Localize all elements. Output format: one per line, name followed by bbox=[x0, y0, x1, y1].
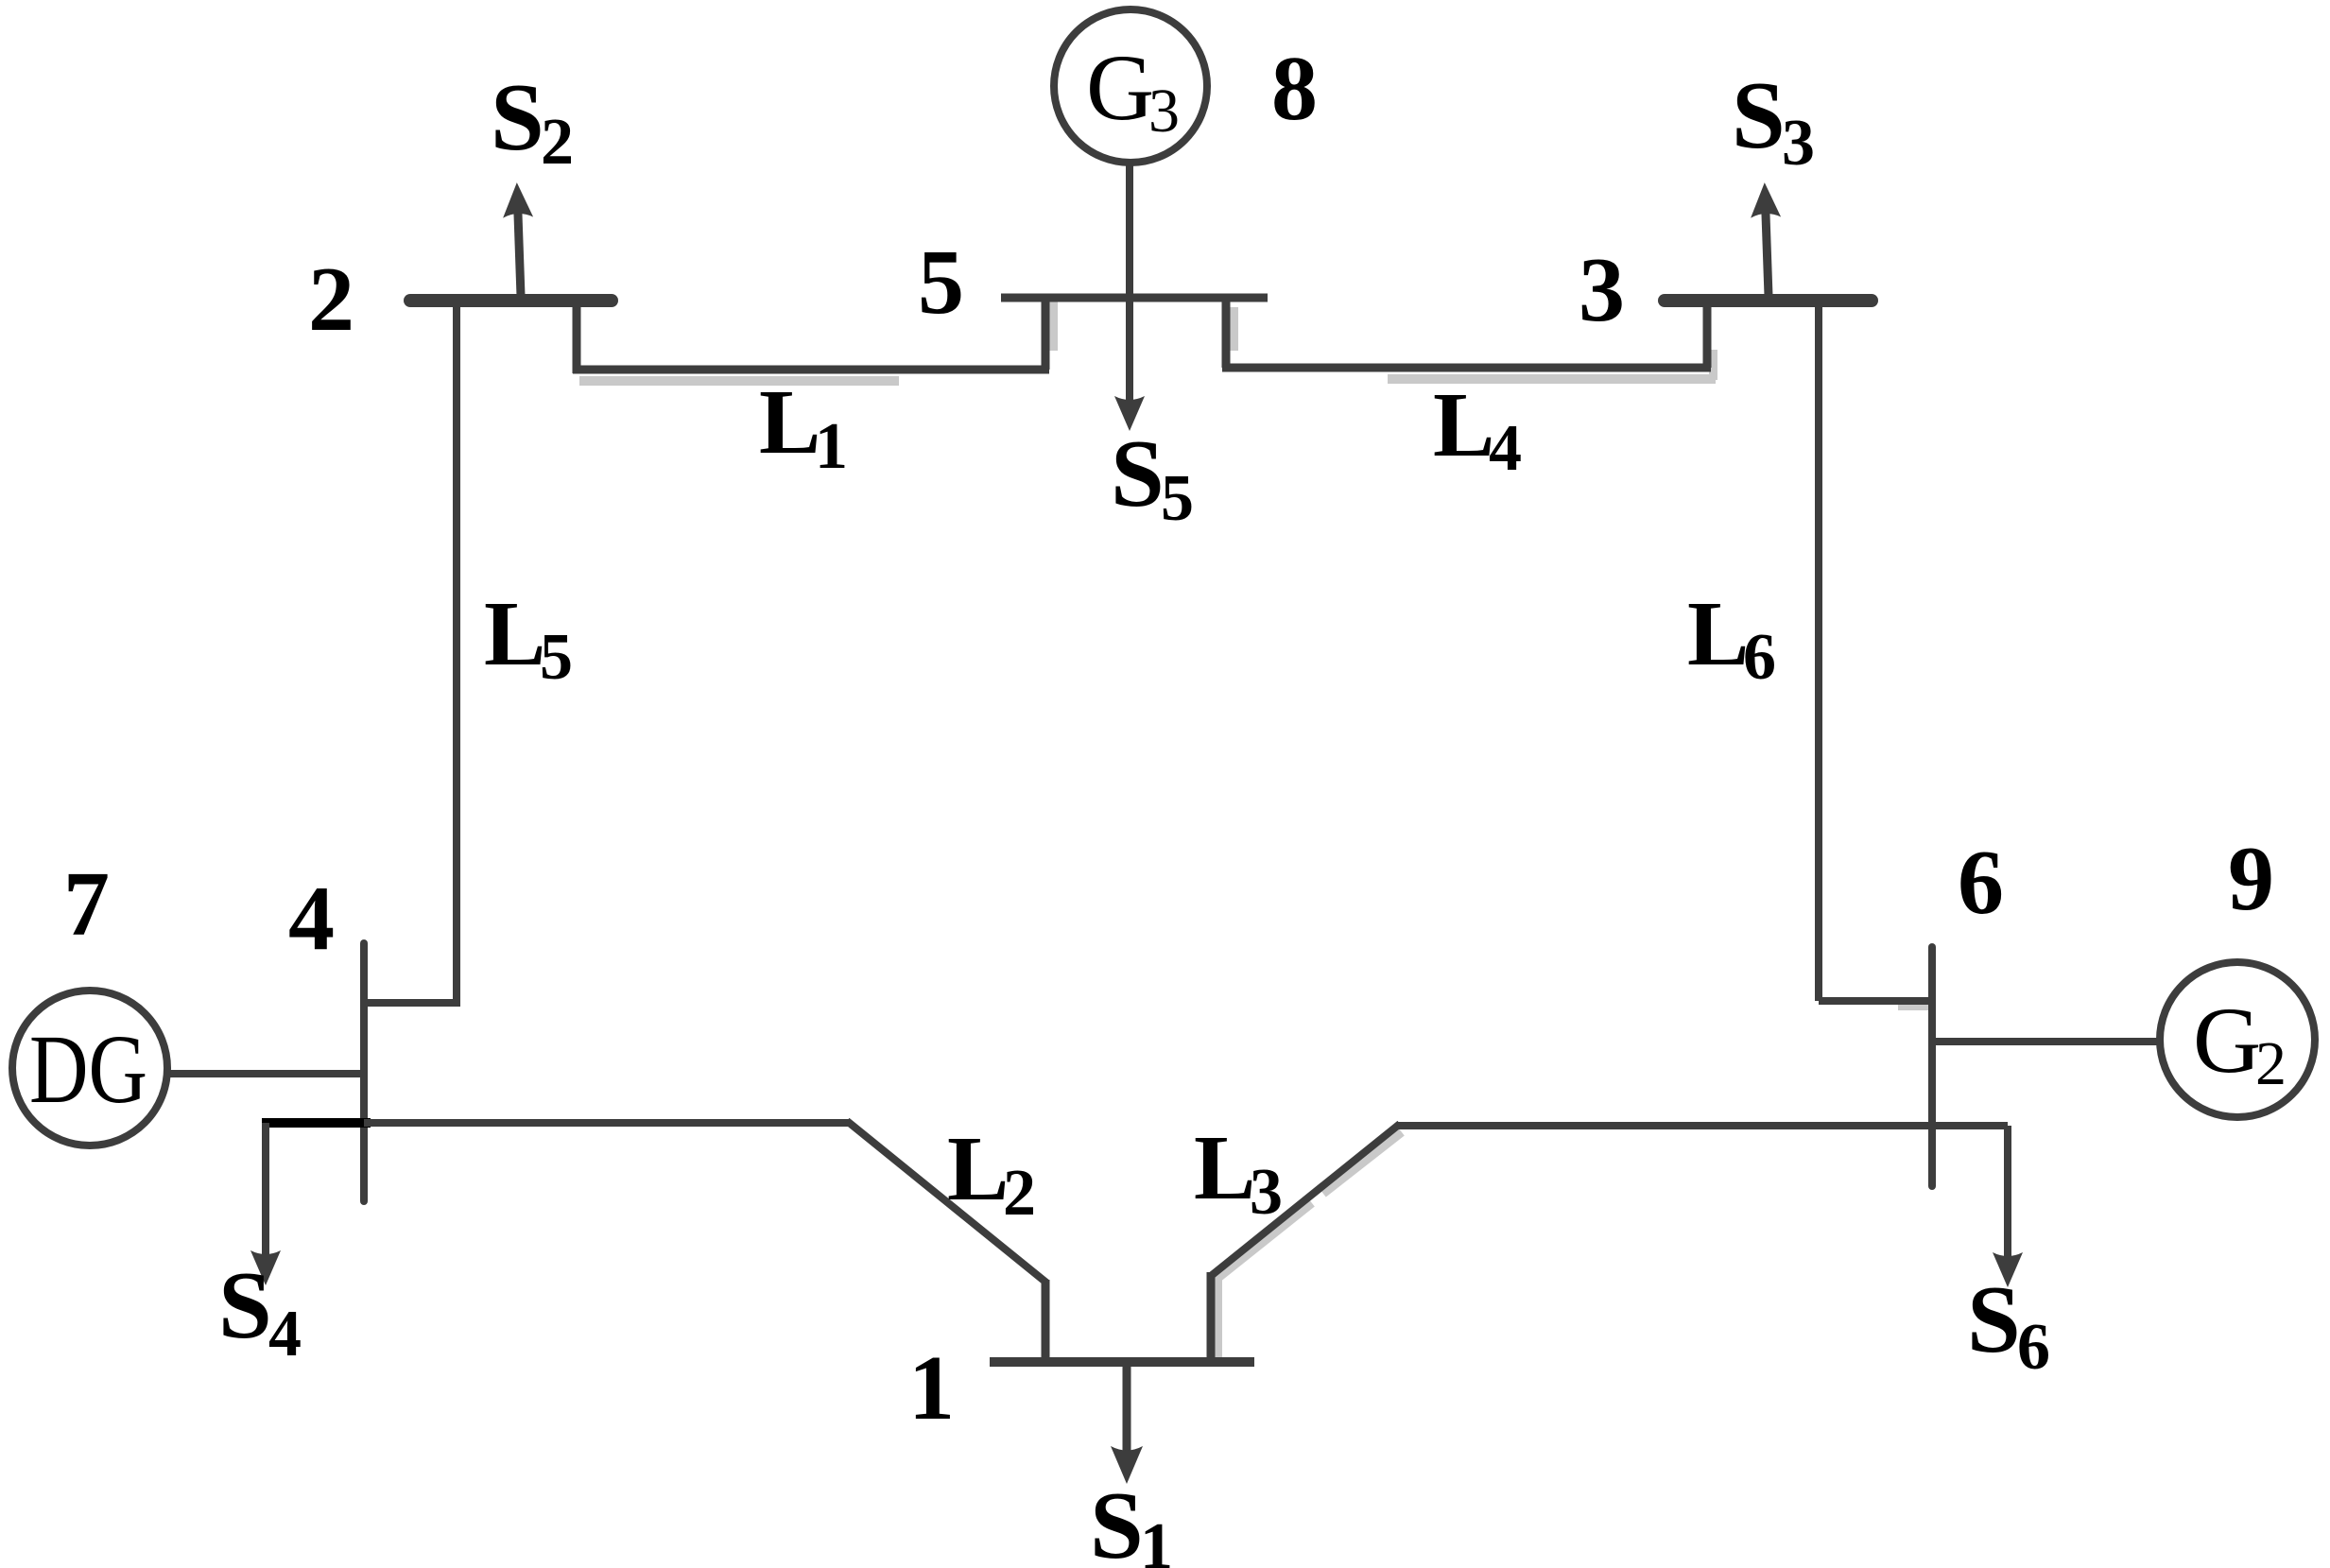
svg-text:L: L bbox=[1194, 1117, 1255, 1219]
svg-text:7: 7 bbox=[63, 853, 110, 956]
svg-text:4: 4 bbox=[288, 868, 335, 970]
svg-text:G: G bbox=[2193, 988, 2261, 1093]
svg-text:S: S bbox=[218, 1252, 272, 1359]
shadow under line L4 bbox=[1388, 374, 1716, 384]
line L3 horizontal to bus 6 bbox=[1396, 1122, 2008, 1129]
svg-text:3: 3 bbox=[1250, 1156, 1283, 1229]
svg-text:S: S bbox=[491, 64, 544, 171]
svg-text:G: G bbox=[1086, 35, 1154, 140]
wire L6 vertical from bus 3 bbox=[1815, 301, 1822, 1001]
svg-text:S: S bbox=[1967, 1266, 2021, 1373]
load S5 arrowhead bbox=[1114, 396, 1145, 431]
svg-text:1: 1 bbox=[908, 1337, 955, 1439]
generator DG circle bbox=[12, 991, 167, 1146]
load S1 arrow stem bbox=[1123, 1362, 1131, 1451]
svg-text:1: 1 bbox=[1140, 1510, 1173, 1568]
wire L4 right stub up to bus 3 bbox=[1703, 301, 1712, 368]
load S4 stub (black) bbox=[262, 1118, 371, 1128]
generator G2 circle bbox=[2160, 962, 2315, 1117]
svg-text:2: 2 bbox=[308, 249, 354, 351]
load S2 arrowhead bbox=[502, 182, 533, 218]
bus 1 bar bbox=[990, 1357, 1254, 1367]
svg-text:3: 3 bbox=[1782, 107, 1815, 180]
svg-text:2: 2 bbox=[1003, 1157, 1036, 1230]
line L2 horizontal from bus 4 bbox=[364, 1119, 850, 1127]
bus 6 bar bbox=[1928, 947, 1936, 1186]
bus 2 bar bbox=[410, 294, 612, 307]
svg-text:3: 3 bbox=[1579, 239, 1625, 341]
shadow along L3 slant upper bbox=[1323, 1132, 1402, 1194]
svg-text:S: S bbox=[1090, 1473, 1144, 1568]
bus 3 bar bbox=[1665, 294, 1872, 307]
generator G2 connector to bus 6 bbox=[1932, 1038, 2160, 1045]
load S2 arrow stem bbox=[502, 182, 536, 297]
svg-text:6: 6 bbox=[1958, 832, 2004, 934]
svg-text:5: 5 bbox=[1161, 462, 1194, 535]
shadow right of bus5 left stub bbox=[1049, 300, 1058, 351]
wire L4 left stub below bus 5 bbox=[1222, 298, 1231, 368]
line L2 slant bbox=[847, 1121, 1046, 1283]
shadow right of bus5 right stub bbox=[1230, 307, 1238, 351]
load S4 arrow stem bbox=[262, 1123, 269, 1255]
wire L5 to bus 4 connector bbox=[364, 999, 460, 1007]
wire L1 left stub below bus 2 bbox=[573, 301, 581, 373]
shadow right of bus3 left stub bbox=[1709, 350, 1717, 380]
svg-text:L: L bbox=[1687, 583, 1749, 685]
svg-text:L: L bbox=[947, 1118, 1009, 1220]
generator G3 circle bbox=[1054, 9, 1207, 163]
svg-text:S: S bbox=[1732, 62, 1786, 169]
wire L5 vertical from bus 2 to bus 4 level bbox=[453, 302, 460, 1003]
wire L4 horizontal bbox=[1222, 364, 1711, 372]
bus 4 bar bbox=[360, 943, 368, 1201]
shadow left of bus6 top connector bbox=[1898, 1003, 1932, 1010]
line L3 rise from bus 1 bbox=[1207, 1272, 1216, 1362]
bus 5 bar bbox=[1001, 294, 1268, 302]
wire L1 horizontal bbox=[573, 366, 1049, 374]
svg-text:L: L bbox=[759, 371, 820, 474]
line L2 drop to bus 1 bbox=[1042, 1280, 1050, 1362]
svg-text:2: 2 bbox=[2255, 1029, 2287, 1098]
load S3 arrowhead bbox=[1750, 182, 1781, 218]
svg-text:9: 9 bbox=[2228, 828, 2274, 930]
svg-text:8: 8 bbox=[1271, 38, 1318, 140]
svg-text:1: 1 bbox=[815, 410, 848, 483]
svg-text:L: L bbox=[484, 583, 545, 685]
wire L1 right stub up to bus 5 bbox=[1042, 298, 1050, 370]
svg-text:2: 2 bbox=[541, 106, 574, 179]
svg-text:5: 5 bbox=[540, 621, 573, 694]
load S6 arrow stem bbox=[2004, 1126, 2011, 1257]
shadow right of bus1 right stub bbox=[1215, 1275, 1222, 1365]
svg-text:S: S bbox=[1111, 421, 1165, 527]
shadow under line L1 bbox=[579, 376, 899, 386]
load S6 arrowhead bbox=[1993, 1252, 2023, 1287]
svg-text:DG: DG bbox=[29, 1015, 147, 1124]
shadow along L3 slant lower bbox=[1218, 1203, 1312, 1278]
load S1 arrowhead bbox=[1111, 1446, 1143, 1484]
generator DG connector to bus 4 bbox=[167, 1070, 364, 1077]
svg-text:L: L bbox=[1433, 374, 1494, 476]
svg-text:3: 3 bbox=[1148, 77, 1180, 146]
wire L6 to bus 6 connector bbox=[1819, 997, 1932, 1005]
svg-text:6: 6 bbox=[1743, 621, 1776, 694]
load S3 arrow stem bbox=[1750, 182, 1784, 297]
load S4 arrowhead bbox=[250, 1250, 281, 1285]
generator G3 feeder and load S5 stem bbox=[1126, 163, 1133, 401]
line L3 slant bbox=[1211, 1124, 1400, 1276]
svg-text:4: 4 bbox=[1489, 412, 1522, 485]
svg-text:4: 4 bbox=[268, 1298, 302, 1370]
svg-text:5: 5 bbox=[918, 232, 964, 334]
svg-text:6: 6 bbox=[2017, 1311, 2050, 1384]
